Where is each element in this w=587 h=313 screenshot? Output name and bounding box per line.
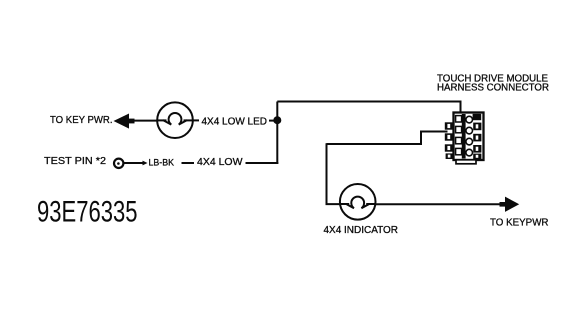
connector latch tab top-right bbox=[473, 114, 482, 120]
svg-text:TO KEYPWR: TO KEYPWR bbox=[490, 218, 549, 229]
svg-text:4X4 INDICATOR: 4X4 INDICATOR bbox=[324, 225, 399, 236]
arrow: to key pwr (left-pointing) bbox=[114, 114, 135, 129]
connector pin 5 (left col) bbox=[456, 137, 462, 143]
svg-text:TO KEY PWR.: TO KEY PWR. bbox=[50, 115, 113, 126]
connector latch tab right 3 bbox=[473, 145, 481, 153]
lamp: 4X4 LOW LED (indicator bulb U1) bbox=[157, 102, 193, 138]
svg-text:HARNESS CONNECTOR: HARNESS CONNECTOR bbox=[437, 83, 549, 94]
svg-text:TEST PIN *2: TEST PIN *2 bbox=[44, 156, 106, 167]
wire: branch to connector pin 2 bbox=[327, 132, 448, 145]
wire: indicator to arrow bbox=[375, 203, 505, 205]
connector latch tab right 2 bbox=[473, 134, 481, 142]
wire: drop to 4X4 indicator bbox=[327, 143, 341, 204]
connector latch tab left 2 bbox=[445, 133, 454, 140]
test pin terminal bbox=[114, 159, 123, 168]
connector pin 3 (left col) bbox=[456, 126, 462, 132]
wire: arrow to LED lamp bbox=[133, 120, 158, 122]
arrow: to keypwr (right-pointing) bbox=[500, 197, 520, 212]
wire: between LB-BK and 4X4 LOW bbox=[182, 162, 195, 164]
connector latch tab right 4 bbox=[473, 154, 481, 159]
lamp: 4X4 INDICATOR (indicator bulb U2) bbox=[340, 184, 376, 220]
connector: touch drive module harness connector J1 bbox=[454, 113, 484, 164]
wire: 4X4 LOW to vertical bus bbox=[246, 162, 279, 164]
connector latch tab left 3 bbox=[445, 144, 454, 151]
wire: top run to connector pin 1 bbox=[277, 102, 460, 117]
connector pin 4 (right col) bbox=[466, 127, 473, 134]
wire: test pin to LB-BK label (with tick) bbox=[124, 161, 148, 166]
svg-text:93E76335: 93E76335 bbox=[37, 195, 138, 228]
svg-text:4X4 LOW: 4X4 LOW bbox=[197, 157, 243, 168]
svg-text:4X4 LOW LED: 4X4 LOW LED bbox=[202, 116, 268, 127]
connector pin 1 (left col) bbox=[456, 116, 462, 122]
junction dot (node A) bbox=[273, 116, 281, 124]
connector pin 6 (right col) bbox=[466, 138, 473, 145]
svg-text:LB-BK: LB-BK bbox=[149, 158, 175, 169]
wire: label to junction dot bbox=[269, 120, 277, 122]
connector pin 8 (right col) bbox=[466, 149, 473, 156]
connector latch tab right 1 bbox=[473, 123, 481, 131]
connector latch tab left 1 bbox=[445, 122, 454, 129]
wire: lamp to label bbox=[193, 119, 199, 121]
connector pin 7 (left col) bbox=[456, 148, 462, 154]
connector pin 2 (right col) bbox=[466, 116, 473, 123]
connector latch tab left 4 bbox=[446, 153, 454, 159]
wire: vertical bus at x=277 bbox=[276, 102, 278, 165]
